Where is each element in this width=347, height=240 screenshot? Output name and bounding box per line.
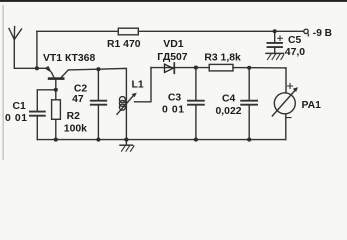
svg-text:VD1: VD1 — [163, 39, 183, 50]
svg-text:0 01: 0 01 — [162, 104, 185, 115]
svg-text:ГД507: ГД507 — [157, 52, 188, 63]
svg-text:C4: C4 — [222, 94, 236, 105]
svg-text:C3: C3 — [168, 92, 182, 103]
svg-text:PA1: PA1 — [302, 100, 322, 111]
svg-text:R2: R2 — [67, 111, 81, 122]
svg-text:0 01: 0 01 — [5, 113, 28, 124]
svg-text:0,022: 0,022 — [216, 106, 242, 117]
svg-text:C1: C1 — [13, 101, 27, 112]
svg-text:R3 1,8k: R3 1,8k — [204, 52, 241, 63]
svg-text:VT1 КТ368: VT1 КТ368 — [43, 53, 95, 64]
svg-text:47: 47 — [72, 94, 84, 105]
svg-text:L1: L1 — [132, 80, 144, 91]
svg-text:-9 В: -9 В — [313, 28, 332, 39]
svg-text:R1 470: R1 470 — [107, 39, 141, 50]
svg-text:100k: 100k — [64, 123, 87, 134]
svg-text:C2: C2 — [74, 83, 88, 94]
svg-text:C5: C5 — [288, 35, 302, 46]
svg-text:47,0: 47,0 — [285, 47, 305, 58]
